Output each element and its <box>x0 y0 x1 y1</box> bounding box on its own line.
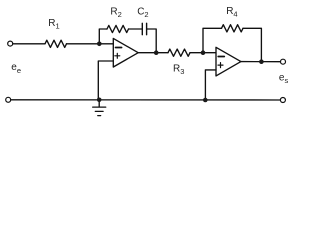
output terminal e_s top <box>281 59 286 64</box>
wire R4 down to node D on output <box>243 28 261 61</box>
resistor R2 <box>107 25 129 32</box>
resistor R4 <box>222 25 244 32</box>
op-amp U2 <box>216 47 241 76</box>
node A junction dot <box>97 42 102 47</box>
input terminal e_e top <box>8 41 13 46</box>
wire R2 to C2 <box>129 28 143 30</box>
input terminal bottom left <box>6 97 11 102</box>
capacitor C2 <box>141 23 143 34</box>
wire U2 output to terminal e_s <box>241 61 281 63</box>
resistor R1 <box>45 40 67 47</box>
wire C2 to node B <box>147 29 157 53</box>
wire input to R1 <box>13 43 45 45</box>
node C junction dot <box>201 50 206 55</box>
wire R3 to node C / op-amp U2 inverting input <box>190 52 216 54</box>
node B junction dot <box>154 50 159 55</box>
ground <box>98 100 100 107</box>
wire U1 output to R3 <box>138 52 168 54</box>
wire U1 noninverting input to ground rail <box>98 61 113 100</box>
op-amp U1 <box>113 38 138 67</box>
node D junction dot <box>259 59 264 64</box>
ground rail wire <box>11 99 281 101</box>
resistor R3 <box>168 49 190 56</box>
wire R1 to node A / op-amp U1 inverting input <box>67 43 114 45</box>
U2 + rail junction dot <box>203 98 208 103</box>
wire node C up to R4 feedback rail <box>203 28 222 52</box>
wire node A up to feedback rail <box>99 29 107 44</box>
output terminal bottom right <box>280 98 285 103</box>
ground junction dot <box>97 98 102 103</box>
wire U2 noninverting input down to ground rail <box>205 70 216 100</box>
